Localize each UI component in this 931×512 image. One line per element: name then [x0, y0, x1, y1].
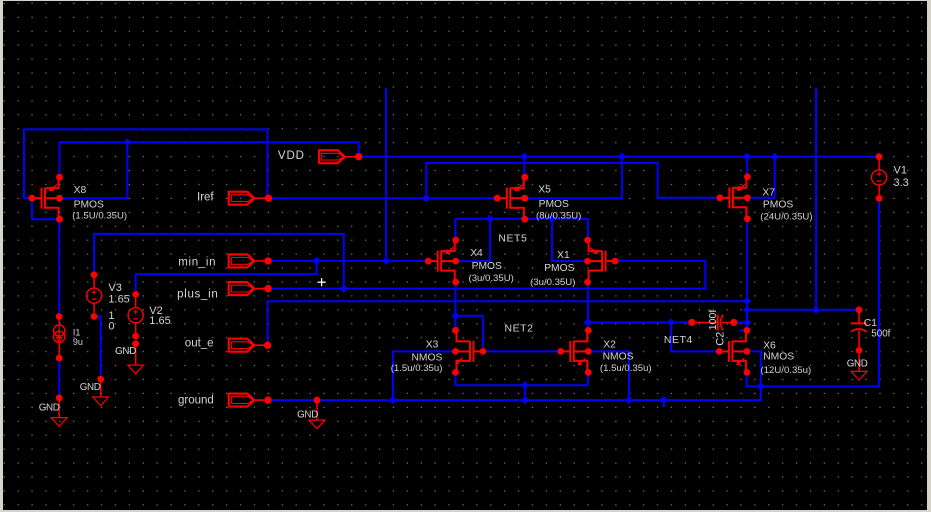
svg-text:ground: ground [178, 394, 214, 406]
svg-text:out_e: out_e [184, 338, 213, 350]
svg-text:NET5: NET5 [498, 234, 527, 245]
svg-text:PMOS: PMOS [544, 263, 574, 274]
svg-text:V1: V1 [893, 165, 906, 177]
svg-text:X1: X1 [557, 250, 570, 261]
svg-text:GND: GND [846, 359, 867, 370]
svg-text:(3u/0.35U): (3u/0.35U) [468, 273, 513, 284]
svg-text:GND: GND [79, 382, 100, 393]
svg-text:plus_in: plus_in [177, 288, 218, 300]
svg-text:1.65: 1.65 [149, 315, 170, 327]
svg-text:1.65: 1.65 [108, 294, 129, 306]
svg-text:GND: GND [297, 410, 318, 421]
svg-text:NMOS: NMOS [763, 352, 794, 363]
svg-text:(1.5U/0.35U): (1.5U/0.35U) [72, 211, 127, 222]
svg-text:min_in: min_in [178, 256, 216, 268]
svg-text:3.3: 3.3 [893, 177, 908, 189]
svg-text:(8u/0.35U): (8u/0.35U) [536, 211, 581, 222]
svg-text:X5: X5 [538, 185, 551, 196]
svg-text:C2: C2 [714, 332, 726, 346]
svg-text:(3u/0.35U): (3u/0.35U) [530, 277, 575, 288]
svg-text:PMOS: PMOS [538, 199, 568, 210]
svg-text:NMOS: NMOS [602, 351, 633, 362]
svg-text:PMOS: PMOS [471, 261, 501, 272]
svg-text:(24U/0.35U): (24U/0.35U) [760, 211, 812, 222]
svg-text:X8: X8 [73, 185, 86, 196]
svg-text:X6: X6 [763, 340, 776, 351]
svg-text:I1: I1 [72, 327, 80, 337]
svg-text:X7: X7 [762, 187, 775, 198]
svg-text:(1.5u/0.35u): (1.5u/0.35u) [599, 363, 651, 374]
svg-text:V3: V3 [108, 282, 121, 294]
svg-text:NET2: NET2 [504, 323, 533, 334]
svg-text:100f: 100f [706, 310, 718, 331]
svg-text:(1.5u/0.35u): (1.5u/0.35u) [390, 363, 442, 374]
svg-text:GND: GND [38, 402, 59, 413]
svg-text:9u: 9u [72, 337, 82, 347]
svg-text:Iref: Iref [197, 191, 214, 203]
svg-text:500f: 500f [871, 328, 890, 339]
svg-text:(12U/0.35u): (12U/0.35u) [760, 365, 811, 376]
svg-text:PMOS: PMOS [73, 200, 103, 211]
svg-text:VDD: VDD [277, 150, 304, 162]
svg-text:X2: X2 [603, 339, 616, 350]
svg-text:0: 0 [108, 321, 114, 333]
svg-text:X3: X3 [425, 339, 438, 350]
svg-text:GND: GND [115, 346, 136, 357]
svg-text:NET4: NET4 [663, 335, 692, 346]
svg-text:X4: X4 [470, 248, 483, 259]
svg-text:PMOS: PMOS [762, 200, 792, 211]
